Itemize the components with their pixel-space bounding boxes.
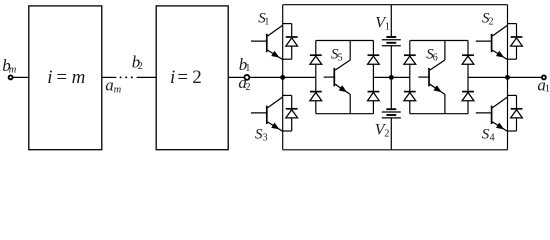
svg-text:4: 4 [490,133,495,144]
svg-text:i: i [170,67,175,88]
transistor S2 [476,25,508,59]
svg-text:=: = [56,67,67,88]
transistor S5 [324,41,351,114]
svg-text:a: a [105,75,114,94]
centre rail upper segment with source V1 [390,5,392,78]
svg-text:2: 2 [192,67,202,88]
label a_2 [238,73,250,93]
S6 diode bridge bottom rail [410,113,468,115]
svg-text:1: 1 [545,84,550,95]
S5 bridge right branch wires [372,41,374,114]
svg-text:m: m [9,64,17,75]
label V_2 [375,121,390,139]
S6 bridge left branch wires [409,41,411,114]
voltage source V2 [382,109,401,118]
svg-text:2: 2 [245,82,250,93]
svg-text:=: = [177,67,188,88]
svg-text:2: 2 [489,17,494,28]
svg-text:5: 5 [338,53,343,64]
svg-text:S: S [482,127,490,143]
terminal b_1/a_2 [244,75,249,80]
S5 bridge left branch wires [315,41,317,114]
terminal a_1 [542,75,546,79]
transistor S1 [251,25,283,59]
label S_2 [482,11,494,28]
S6 bridge diode upper-left [404,55,416,64]
svg-text:2: 2 [138,61,143,72]
H-bridge top rail [283,4,508,6]
wire centre rail to S6 bridge [391,76,410,78]
label i = m [47,67,85,88]
label S_6 [426,47,438,64]
wire block i=m to dots, node a_m [102,76,117,78]
H-bridge bottom rail [283,149,508,151]
svg-text:6: 6 [433,53,438,64]
label S_1 [258,11,269,28]
label a_m [105,75,121,95]
freewheel diode of S4 [508,95,523,131]
label b_m [2,56,17,75]
label i = 2 [170,67,202,88]
svg-text:2: 2 [384,128,389,139]
label a_1 [537,75,549,94]
freewheel diode of S1 [283,24,298,60]
node dot a_1 on right rail [505,75,510,80]
label S_4 [482,127,495,144]
svg-text:1: 1 [385,21,390,32]
freewheel diode of S3 [283,95,298,131]
centre rail lower segment with source V2 [390,77,392,149]
wire block i=2 to H-bridge, node b_1/a_2 [228,76,283,78]
terminal b_m [9,75,13,79]
S6 bridge diode lower-right [462,92,474,101]
transistor S4 [476,97,508,131]
S6 bridge diode lower-left [404,92,416,101]
node dot b_1/a_2 on left rail [280,75,285,80]
S5 bridge diode lower-left [310,92,322,101]
right leg rail [507,5,509,150]
wire dots to block i=2, node b_2 [137,76,157,78]
S5 bridge diode upper-left [310,55,322,64]
node dot centre [389,75,394,80]
label V_1 [375,15,390,33]
S5 bridge diode lower-right [368,92,380,101]
S6 diode bridge top rail [410,40,468,42]
S6 bridge right branch wires [467,41,469,114]
label S_3 [255,127,268,144]
wire S5 bridge to centre rail [373,76,391,78]
S5 diode bridge bottom rail [316,113,374,115]
svg-text:3: 3 [263,133,268,144]
svg-text:1: 1 [264,17,269,28]
left leg rail [282,5,284,150]
transistor S3 [251,97,283,131]
wire left rail to S5 bridge [283,76,316,78]
block i = 2 [156,6,228,150]
svg-text:m: m [72,67,86,88]
svg-text:m: m [114,84,122,95]
label S_5 [331,47,343,64]
ellipsis dots [120,76,133,78]
voltage source V1 [382,37,401,46]
wire S6 bridge to right rail [468,76,508,78]
block i = m [29,6,102,150]
freewheel diode of S2 [508,24,523,60]
S5 bridge diode upper-right [368,55,380,64]
label b_2 [132,52,143,72]
S5 diode bridge top rail [316,40,374,42]
transistor S6 [418,41,445,114]
wire right rail to terminal a_1 [508,76,542,78]
S6 bridge diode upper-right [462,55,474,64]
label b_1 [239,55,251,74]
svg-text:i: i [47,67,52,88]
wire b_m to block i=m [13,76,29,78]
